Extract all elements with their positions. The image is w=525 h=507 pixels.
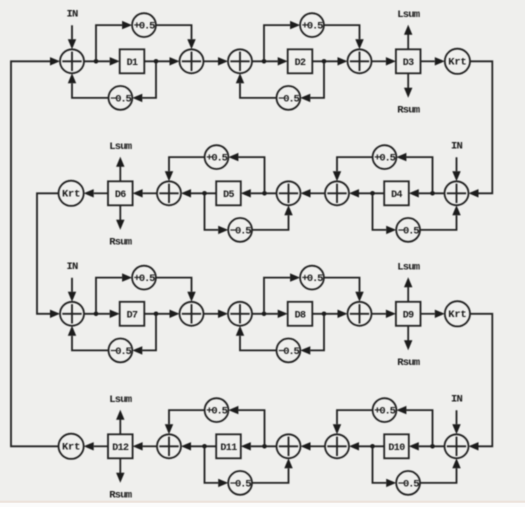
node r1s1 branch junction before delay: [94, 59, 99, 64]
delay D3 (output tap): [396, 49, 421, 73]
wire delay D10 to output sum: [349, 442, 384, 450]
node r2s1 input summing junction: [445, 181, 469, 205]
wire r4s1 -0.5 gain back to input sum: [420, 458, 461, 483]
node r3s2 branch junction before delay: [262, 312, 267, 317]
node r2s1 branch junction before delay: [430, 191, 435, 196]
wire row 3 stage2 to delay D9: [372, 310, 396, 318]
node r4s2 branch junction after delay: [202, 444, 207, 449]
svg-text:D2: D2: [295, 58, 306, 69]
wire D12 to Krt gain (row 4): [84, 442, 108, 450]
wire r1s2 -0.5 gain back to input sum: [236, 73, 277, 98]
gain -0.5 (r4s1 feedback): [396, 471, 420, 495]
svg-text:−0.5: −0.5: [110, 346, 131, 358]
svg-text:Krt: Krt: [448, 57, 466, 69]
svg-text:D8: D8: [295, 310, 306, 321]
gain +0.5 (r4s2 feedforward): [205, 398, 229, 422]
node r4s2 output summing junction: [157, 434, 181, 458]
wire r2s1 -0.5 gain back to input sum: [420, 205, 461, 230]
wire r3s2 sum to delay D8: [252, 310, 288, 318]
node r3s1 branch junction after delay: [154, 312, 159, 317]
wire r1s1 -0.5 gain back to input sum: [68, 73, 109, 98]
wire delay D8 to output sum: [312, 310, 347, 318]
delay D11: [216, 434, 241, 458]
wire r2s2 branch up to +0.5 gain: [228, 153, 264, 191]
node Lsum (row 1 left output): [397, 9, 420, 21]
svg-text:IN: IN: [66, 261, 78, 273]
node r1s2 branch junction after delay: [322, 59, 327, 64]
wire r2s2 +0.5 gain to output sum: [165, 157, 205, 181]
node r3s2 input summing junction: [228, 302, 252, 326]
wire r4s2 +0.5 gain to output sum: [165, 410, 205, 434]
wire r1s1 sum to delay D1: [84, 57, 120, 65]
svg-text:Lsum: Lsum: [397, 9, 420, 21]
node r4s1 branch junction before delay: [430, 444, 435, 449]
wire r4s1 branch down to -0.5 gain: [373, 448, 397, 487]
wire r1s2 branch up to +0.5 gain: [264, 21, 300, 59]
wire r2s1 branch up to +0.5 gain: [396, 153, 432, 191]
node r3s1 input summing junction: [60, 302, 84, 326]
gain Krt (row 2 feedback gain): [59, 181, 84, 206]
wire r3s1 -0.5 gain back to input sum: [68, 326, 109, 351]
wire IN arrow into row 1 first sum: [68, 25, 76, 49]
wire row 1 stage2 to delay D3: [372, 57, 396, 65]
wire delay D7 to output sum: [144, 310, 179, 318]
node IN (row 2 input): [451, 141, 463, 153]
node r2s2 branch junction before delay: [262, 191, 267, 196]
wire row 1 stage1 to stage2: [204, 57, 229, 65]
svg-text:Lsum: Lsum: [109, 141, 132, 153]
svg-text:Rsum: Rsum: [109, 490, 132, 502]
svg-text:D12: D12: [112, 443, 129, 454]
svg-text:D7: D7: [127, 310, 138, 321]
wire D3 tap up to Lsum: [404, 25, 412, 50]
wire r2s2 sum to delay D5: [241, 189, 277, 197]
wire row 3 stage1 to stage2: [204, 310, 229, 318]
wire r4s2 branch down to -0.5 gain: [205, 448, 229, 487]
wire D6 tap up to Lsum: [116, 157, 124, 182]
node Rsum (row 3 right output): [397, 357, 420, 369]
node r1s2 output summing junction: [348, 49, 372, 73]
gain -0.5 (r1s1 feedback): [109, 86, 133, 110]
svg-text:Lsum: Lsum: [397, 262, 420, 274]
delay D9 (output tap): [396, 302, 421, 326]
gain -0.5 (r3s1 feedback): [109, 339, 133, 363]
svg-text:−0.5: −0.5: [398, 225, 419, 237]
svg-text:D10: D10: [388, 443, 405, 454]
svg-text:−0.5: −0.5: [398, 478, 419, 490]
wire r1s1 branch down to -0.5 gain: [132, 63, 156, 102]
wire r4s1 sum to delay D10: [409, 442, 445, 450]
wire IN arrow into row 3 first sum: [68, 278, 76, 302]
wire r3s2 branch up to +0.5 gain: [264, 273, 300, 311]
wire D12 tap down to Rsum: [116, 458, 124, 483]
wire IN arrow into row 4 first sum: [452, 410, 460, 434]
svg-text:IN: IN: [66, 9, 78, 21]
gain +0.5 (r4s1 feedforward): [373, 398, 397, 422]
svg-text:Rsum: Rsum: [397, 357, 420, 369]
node r3s1 output summing junction: [180, 302, 204, 326]
svg-text:D1: D1: [127, 58, 138, 69]
svg-text:D5: D5: [223, 190, 234, 201]
svg-text:D3: D3: [403, 58, 414, 69]
node r1s2 input summing junction: [228, 49, 252, 73]
gain +0.5 (r3s1 feedforward): [132, 266, 156, 290]
svg-text:+0.5: +0.5: [134, 273, 155, 285]
gain +0.5 (r1s2 feedforward): [300, 13, 324, 37]
wire r1s2 sum to delay D2: [252, 57, 288, 65]
node Lsum (row 2 left output): [109, 141, 132, 153]
svg-text:+0.5: +0.5: [302, 273, 323, 285]
node Rsum (row 4 right output): [109, 490, 132, 502]
wire delay D5 to output sum: [181, 189, 216, 197]
delay D1: [120, 49, 145, 73]
wire r2s1 +0.5 gain to output sum: [333, 157, 373, 181]
node r2s2 input summing junction: [277, 181, 301, 205]
gain +0.5 (r3s2 feedforward): [300, 266, 324, 290]
svg-text:D4: D4: [391, 190, 402, 201]
node Rsum (row 1 right output): [397, 105, 420, 117]
gain +0.5 (r2s1 feedforward): [373, 145, 397, 169]
node r1s1 input summing junction: [60, 49, 84, 73]
gain -0.5 (r2s1 feedback): [396, 218, 420, 242]
wire r3s1 branch down to -0.5 gain: [132, 316, 156, 355]
svg-text:Rsum: Rsum: [397, 105, 420, 117]
svg-text:Krt: Krt: [62, 442, 80, 454]
svg-text:+0.5: +0.5: [206, 153, 227, 165]
svg-text:Krt: Krt: [62, 189, 80, 201]
node r1s1 output summing junction: [180, 49, 204, 73]
wire D9 tap down to Rsum: [404, 326, 412, 351]
wire r1s1 +0.5 gain to output sum: [156, 25, 196, 49]
node Lsum (row 4 left output): [109, 394, 132, 406]
delay D12 (output tap): [108, 434, 133, 458]
svg-text:+0.5: +0.5: [134, 21, 155, 33]
svg-text:D11: D11: [220, 443, 237, 454]
wire r1s2 branch down to -0.5 gain: [300, 63, 324, 102]
wire row 4 stage2 to delay D12: [133, 442, 157, 450]
wire D9 to Krt gain (row 3): [421, 310, 445, 318]
wire r2s2 -0.5 gain back to input sum: [252, 205, 293, 230]
node IN (row 1 input): [66, 9, 78, 21]
svg-text:−0.5: −0.5: [230, 478, 251, 490]
wire r2s2 branch down to -0.5 gain: [205, 195, 229, 234]
gain -0.5 (r3s2 feedback): [277, 339, 301, 363]
wire row 2 stage1 to stage2: [301, 189, 326, 197]
svg-text:+0.5: +0.5: [374, 153, 395, 165]
gain Krt (row 4 feedback gain): [59, 434, 84, 459]
gain +0.5 (r2s2 feedforward): [205, 145, 229, 169]
delay D6 (output tap): [108, 181, 133, 205]
node r1s1 branch junction after delay: [154, 59, 159, 64]
wire r3s2 -0.5 gain back to input sum: [236, 326, 277, 351]
svg-text:+0.5: +0.5: [374, 406, 395, 418]
node r2s1 output summing junction: [325, 181, 349, 205]
node r4s1 branch junction after delay: [370, 444, 375, 449]
wire row3 Krt down to row4 input sum: [469, 314, 493, 451]
node r4s1 input summing junction: [445, 434, 469, 458]
wire D3 to Krt gain (row 1): [421, 57, 445, 65]
wire delay D1 to output sum: [144, 57, 179, 65]
svg-text:D9: D9: [403, 310, 414, 321]
delay D2: [288, 49, 313, 73]
wire r4s2 branch up to +0.5 gain: [228, 406, 264, 444]
wire row2 Krt down to row3 input sum: [37, 193, 60, 318]
wire delay D2 to output sum: [312, 57, 347, 65]
wire row4 Krt feedback up to row1 input sum: [11, 57, 60, 446]
wire r3s2 branch down to -0.5 gain: [300, 316, 324, 355]
gain -0.5 (r1s2 feedback): [277, 86, 301, 110]
node r3s2 output summing junction: [348, 302, 372, 326]
svg-text:D6: D6: [115, 190, 126, 201]
svg-text:−0.5: −0.5: [278, 346, 299, 358]
wire row1 Krt down to row2 input sum: [469, 61, 493, 197]
gain -0.5 (r2s2 feedback): [228, 218, 252, 242]
wire delay D11 to output sum: [181, 442, 216, 450]
wire r1s1 branch up to +0.5 gain: [96, 21, 132, 59]
node IN (row 4 input): [451, 394, 463, 406]
delay D10: [384, 434, 409, 458]
gain Krt (row 1 feedback gain): [445, 49, 470, 74]
svg-text:−0.5: −0.5: [230, 225, 251, 237]
svg-text:−0.5: −0.5: [110, 93, 131, 105]
svg-text:Lsum: Lsum: [109, 394, 132, 406]
wire r4s1 branch up to +0.5 gain: [396, 406, 432, 444]
wire D3 tap down to Rsum: [404, 73, 412, 98]
wire row 2 stage2 to delay D6: [133, 189, 157, 197]
wire r1s2 +0.5 gain to output sum: [324, 25, 364, 49]
node r4s1 output summing junction: [325, 434, 349, 458]
node r2s1 branch junction after delay: [370, 191, 375, 196]
node r2s2 branch junction after delay: [202, 191, 207, 196]
wire D6 to Krt gain (row 2): [84, 189, 108, 197]
wire r4s2 sum to delay D11: [241, 442, 277, 450]
gain Krt (row 3 feedback gain): [445, 301, 470, 326]
wire r3s1 branch up to +0.5 gain: [96, 273, 132, 311]
node Rsum (row 2 right output): [109, 237, 132, 249]
svg-text:+0.5: +0.5: [302, 21, 323, 33]
delay D7: [120, 302, 145, 326]
wire r4s1 +0.5 gain to output sum: [333, 410, 373, 434]
node Lsum (row 3 left output): [397, 262, 420, 274]
wire D6 tap down to Rsum: [116, 205, 124, 230]
wire D9 tap up to Lsum: [404, 277, 412, 302]
wire r3s1 sum to delay D7: [84, 310, 120, 318]
wire row 4 stage1 to stage2: [301, 442, 326, 450]
node IN (row 3 input): [66, 261, 78, 273]
svg-text:Rsum: Rsum: [109, 237, 132, 249]
node r4s2 branch junction before delay: [262, 444, 267, 449]
node r3s1 branch junction before delay: [94, 312, 99, 317]
delay D5: [216, 181, 241, 205]
gain -0.5 (r4s2 feedback): [228, 471, 252, 495]
wire D12 tap up to Lsum: [116, 410, 124, 435]
wire delay D4 to output sum: [349, 189, 384, 197]
wire IN arrow into row 2 first sum: [452, 157, 460, 181]
svg-text:−0.5: −0.5: [278, 93, 299, 105]
wire r3s2 +0.5 gain to output sum: [324, 278, 364, 302]
node r3s2 branch junction after delay: [322, 312, 327, 317]
delay D4: [384, 181, 409, 205]
svg-text:IN: IN: [451, 394, 463, 406]
wire r4s2 -0.5 gain back to input sum: [252, 458, 293, 483]
node r1s2 branch junction before delay: [262, 59, 267, 64]
delay D8: [288, 302, 313, 326]
gain +0.5 (r1s1 feedforward): [132, 13, 156, 37]
node r2s2 output summing junction: [157, 181, 181, 205]
svg-text:IN: IN: [451, 141, 463, 153]
decorative bottom strip: [0, 501, 525, 503]
wire r2s1 branch down to -0.5 gain: [373, 195, 397, 234]
svg-text:Krt: Krt: [448, 309, 466, 321]
svg-text:+0.5: +0.5: [206, 406, 227, 418]
wire r2s1 sum to delay D4: [409, 189, 445, 197]
wire r3s1 +0.5 gain to output sum: [156, 278, 196, 302]
node r4s2 input summing junction: [277, 434, 301, 458]
